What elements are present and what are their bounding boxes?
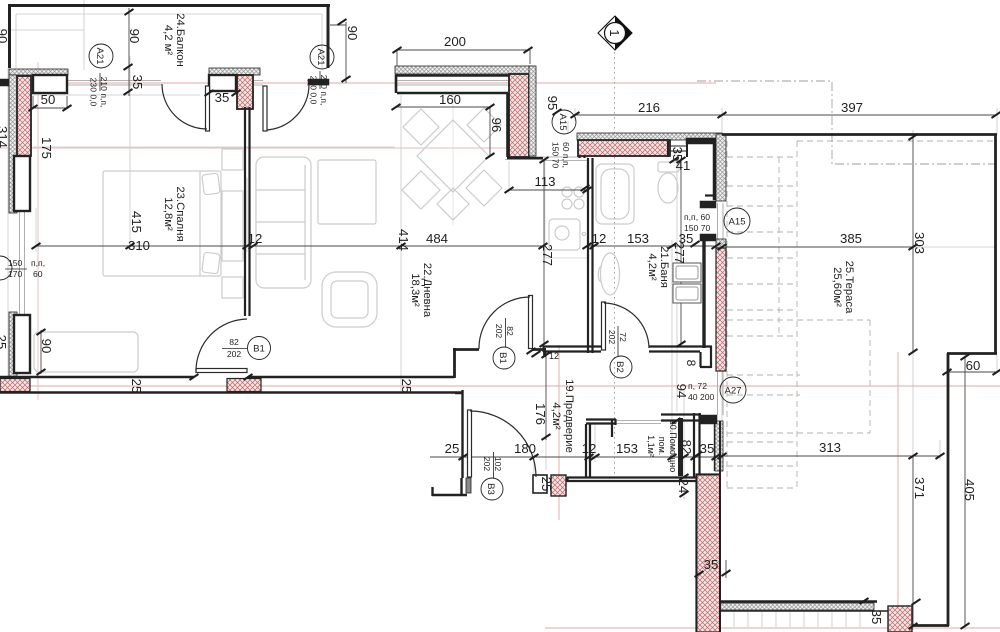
wall: storage left wall <box>586 424 590 477</box>
axis C horizontal y386 <box>0 385 1000 387</box>
dim line 35 vertical x128 and 90 above <box>128 8 130 96</box>
svg-text:405: 405 <box>962 479 977 501</box>
faint horizontal y190 kitchen window dim <box>509 161 587 193</box>
furniture: dining chair SW <box>402 171 440 209</box>
dashed pergola rungs <box>727 157 797 336</box>
furniture: bed pillow top <box>202 173 220 195</box>
furniture: nightstand lower <box>222 277 243 298</box>
LAYER: dashed terrace lines <box>697 81 1000 490</box>
furniture: living table rect <box>318 160 376 224</box>
faint horizontals terrace right <box>722 247 995 460</box>
dim line 277 bath vertical <box>680 158 682 344</box>
axis F vertical x559 <box>558 345 560 520</box>
dashed pergola vertical x797 <box>796 141 798 490</box>
svg-text:В2: В2 <box>614 361 625 373</box>
wall: west red band edges <box>696 421 720 632</box>
wall: terrace west hatch low gray <box>715 421 723 471</box>
north arrow <box>598 16 632 50</box>
svg-text:В1: В1 <box>497 352 508 364</box>
axis E vertical x38 <box>37 62 39 400</box>
faint line left wall outer x8 <box>7 68 9 377</box>
svg-text:82: 82 <box>229 337 239 347</box>
svg-text:35: 35 <box>215 90 230 105</box>
marker circle: A21 right <box>310 45 334 69</box>
svg-text:п,п,: п,п, <box>31 258 45 268</box>
svg-text:12: 12 <box>592 231 607 246</box>
svg-text:277: 277 <box>672 242 687 264</box>
marker circle: window left half <box>0 256 12 280</box>
wall: living bottom step vertical <box>453 348 456 378</box>
wall: terrace west hatch mid red <box>716 248 726 371</box>
marker circle: B3 entry <box>481 478 503 500</box>
wall: storage right wall <box>694 413 700 478</box>
door: living leaf <box>529 296 533 349</box>
door: balcony-living leaf <box>263 86 267 131</box>
faint line bedroom top inner <box>14 95 395 147</box>
svg-text:90: 90 <box>0 29 10 44</box>
furniture: kitchen sink <box>549 219 580 250</box>
axis B horizontal y148 <box>0 147 530 149</box>
wall: entry left wall <box>455 390 463 478</box>
svg-text:303: 303 <box>912 232 927 254</box>
svg-text:В3: В3 <box>485 483 496 495</box>
dashed pergola lower rect <box>727 320 870 433</box>
dim line 160/96 (kitchen corner) <box>396 107 490 156</box>
svg-text:371: 371 <box>912 477 927 499</box>
marker circle: A21 left <box>89 44 113 68</box>
furniture: sofa <box>256 157 311 288</box>
svg-text:113: 113 <box>534 174 555 189</box>
faint extension lines entry y457 <box>462 414 672 482</box>
marker circle: A15 kitchen <box>552 110 576 134</box>
wall: kitchen pillar inner face <box>506 93 509 157</box>
wall: kitchen top hatch band <box>395 66 532 74</box>
wall: left gray hatch strip upper <box>9 75 17 213</box>
svg-text:35: 35 <box>130 75 145 90</box>
wall: terrace west hatch upper <box>716 134 726 201</box>
svg-text:176: 176 <box>533 403 548 425</box>
svg-text:180: 180 <box>514 441 536 456</box>
faint storage opening lines <box>616 421 661 424</box>
svg-text:60: 60 <box>966 358 981 373</box>
svg-text:150: 150 <box>8 258 23 268</box>
wall: entry jamb block <box>466 478 471 493</box>
marker circle: A15 terrace <box>724 208 750 234</box>
dashed pergola vertical x779 <box>778 157 780 337</box>
dashed top edge line <box>797 140 997 142</box>
svg-text:415: 415 <box>129 211 144 233</box>
furniture: dining table diamond <box>417 120 489 192</box>
wall: bath top window jambs <box>668 141 687 157</box>
svg-text:8: 8 <box>684 360 698 367</box>
svg-text:397: 397 <box>841 100 863 115</box>
door: bedroom arc <box>196 319 247 371</box>
wall: entry corner L <box>432 478 467 496</box>
wall: terrace step vertical <box>947 353 950 626</box>
svg-text:А21: А21 <box>94 47 105 64</box>
dim line 303 vertical x918 <box>912 137 914 352</box>
wall: black chunk right of bath window <box>686 138 721 144</box>
svg-text:414: 414 <box>396 229 411 251</box>
svg-text:153: 153 <box>627 231 649 246</box>
axis A horizontal y83 <box>0 82 716 84</box>
faint vertical x684 storage <box>683 388 685 500</box>
svg-text:12: 12 <box>549 351 559 361</box>
wall: terrace top edge <box>722 133 997 136</box>
faint kitchen window lines <box>397 81 508 86</box>
door: balcony-bedroom arc <box>162 84 207 129</box>
wall: living bottom step horizontal <box>453 348 479 351</box>
svg-text:12: 12 <box>582 441 597 456</box>
dashed pergola vertical x727 <box>726 141 728 490</box>
wall: storage inner stub <box>678 418 683 476</box>
wall: terrace bottom right edge <box>913 624 949 627</box>
svg-text:153: 153 <box>616 441 638 456</box>
svg-text:50: 50 <box>41 92 56 107</box>
dim line 35 red band bottom <box>699 560 726 578</box>
svg-text:В1: В1 <box>253 343 265 354</box>
svg-text:25: 25 <box>399 379 414 394</box>
svg-text:94: 94 <box>674 384 689 399</box>
faint stair ticks terrace bottom <box>720 612 913 628</box>
svg-text:25: 25 <box>0 335 9 350</box>
wall: left pier mid <box>14 156 30 211</box>
wall: hatch band balcony middle <box>209 68 260 75</box>
wall: black pier at terrace corner <box>713 141 720 200</box>
faint horizontal bedroom dim extensions <box>36 245 247 247</box>
faint balcony window lines top <box>68 81 329 86</box>
faint balcony inner offset lines <box>16 14 322 68</box>
svg-text:313: 313 <box>819 440 841 455</box>
faint terrace window A15 lines <box>718 203 724 239</box>
svg-text:90: 90 <box>345 26 360 41</box>
svg-text:95: 95 <box>545 96 560 111</box>
wall: stub right of balcony corner <box>308 79 329 85</box>
svg-text:А27: А27 <box>724 385 741 396</box>
axis dotted vertical x614 north line <box>614 52 616 478</box>
marker circle: B1 living <box>493 347 515 369</box>
furniture: bedroom bench <box>34 332 138 372</box>
axis H short y159 kitchen <box>505 159 543 161</box>
wall: kitchen top wall outer <box>395 74 532 77</box>
wall: terrace bottom band lower line <box>719 610 890 612</box>
wall: bedroom bottom wall bottom line <box>0 391 462 394</box>
svg-text:102202: 102202 <box>482 457 503 472</box>
svg-text:277: 277 <box>540 244 555 266</box>
faint vertical table centerline <box>452 95 454 225</box>
wall: kitchen-bath wall pair x578-586 <box>580 133 585 158</box>
wall: bath bottom wall right piece <box>649 347 712 352</box>
wall: kitchen red pillar <box>509 74 529 157</box>
svg-text:90: 90 <box>39 339 54 354</box>
svg-text:25: 25 <box>539 477 554 492</box>
furniture: bathtub <box>596 164 634 224</box>
svg-text:216: 216 <box>638 100 660 115</box>
svg-text:314: 314 <box>0 126 10 148</box>
wall: terrace west hatch mid gray <box>716 239 726 248</box>
wall: balcony top edge <box>8 4 330 7</box>
wall: terrace bottom hatch band <box>720 603 874 610</box>
dim line 90 (right of balcony) <box>330 22 346 83</box>
wall: bath top window lines <box>670 146 687 151</box>
axis G vertical x898 <box>897 352 899 632</box>
wall: bath right window jamb bottom <box>700 234 716 241</box>
faint terrace extension x722 x918 x965 x997 <box>722 108 997 630</box>
wall: top gray hatch band bath-terrace <box>577 133 722 140</box>
wall: terrace bottom red block <box>888 606 912 632</box>
furniture: armchair <box>322 272 377 327</box>
property boundary dash-dot line <box>697 81 1000 164</box>
svg-text:40 200: 40 200 <box>688 392 715 402</box>
wall: terrace step horizontal <box>947 352 997 355</box>
svg-text:202: 202 <box>227 349 242 359</box>
wall: balcony left edge <box>8 4 11 68</box>
svg-text:60 п,п,150 70: 60 п,п,150 70 <box>551 142 572 169</box>
door: bathroom leaf <box>602 302 606 350</box>
door: bathroom arc <box>604 303 649 348</box>
wall: bath left wall <box>588 158 593 353</box>
wall: left gray hatch strip lower <box>9 312 17 377</box>
wall: left pier low <box>14 315 30 373</box>
wall: hatch band top-left <box>9 69 68 75</box>
dim line 313 y456 <box>722 455 940 457</box>
svg-text:35: 35 <box>670 147 685 162</box>
wall: pier balcony middle <box>209 75 236 91</box>
svg-text:160: 160 <box>439 92 461 107</box>
marker circle: B1 bedroom <box>248 337 271 360</box>
svg-text:175: 175 <box>39 137 54 159</box>
svg-text:24: 24 <box>676 479 691 494</box>
wall: bedroom bottom wall top line <box>0 376 454 379</box>
svg-text:А15: А15 <box>557 113 568 130</box>
furniture: bed pillow bottom <box>202 252 220 274</box>
svg-text:90: 90 <box>127 29 142 44</box>
svg-text:60: 60 <box>33 269 43 279</box>
dim line 113 (kitchen pass) <box>509 189 587 191</box>
LAYER: doors <box>162 84 701 477</box>
furniture: dining chair S <box>437 188 469 220</box>
door: balcony-bedroom leaf <box>206 86 210 131</box>
wall: west red band <box>696 474 720 632</box>
furniture: dining chair NE <box>467 108 501 142</box>
wall: left red hatch block <box>17 76 31 156</box>
wall: red pillar balcony <box>237 75 253 109</box>
wall: kitchen pillar bottom cap <box>507 157 543 160</box>
door: entry leaf <box>468 410 472 477</box>
svg-text:25.Тераса25,60м²: 25.Тераса25,60м² <box>831 261 855 314</box>
svg-text:1: 1 <box>607 29 622 36</box>
marker circle: B2 bath <box>610 356 632 378</box>
svg-text:А21: А21 <box>315 48 326 65</box>
dim line 50 (top-left box) <box>24 96 68 108</box>
faint verticals bathroom x672 x677 <box>672 155 677 462</box>
axis D horizontal y628 <box>545 627 1000 629</box>
door: bedroom leaf <box>196 369 247 373</box>
wall: bathroom top red band <box>578 140 670 156</box>
LAYER: furniture <box>34 108 679 372</box>
svg-text:25: 25 <box>129 379 144 394</box>
dim line 405 vertical <box>964 357 966 626</box>
furniture: toilet <box>658 162 679 172</box>
door: living arc <box>479 297 530 349</box>
wall: bath right upper L <box>705 194 721 196</box>
svg-text:200: 200 <box>444 34 466 49</box>
wall: living door jamb right piece <box>532 348 546 357</box>
furniture: kitchen hob circles <box>562 187 572 197</box>
wall: balcony right edge <box>327 4 330 68</box>
dim line 200 (top kitchen) <box>397 50 530 73</box>
dashed bottom rect rungs <box>727 442 797 488</box>
dim line 60 terrace step <box>947 371 997 373</box>
wall: bath right window jamb top <box>700 201 716 208</box>
wall: red block in bottom wall left <box>0 379 30 392</box>
svg-text:385: 385 <box>840 231 862 246</box>
furniture: dining chair SE <box>466 170 502 206</box>
wall: storage top wall left <box>586 419 616 437</box>
door: balcony-living arc <box>267 84 309 130</box>
svg-text:А15: А15 <box>728 216 745 227</box>
faint lines window sills left <box>14 211 30 315</box>
wall: kitchen top wall inner <box>396 75 508 93</box>
dim line 371 vertical <box>912 456 914 626</box>
wall: entry threshold red <box>551 475 566 496</box>
faint horizontal y115 top dims <box>568 108 575 133</box>
svg-text:35: 35 <box>704 557 719 572</box>
wall: terrace right edge <box>994 134 997 354</box>
wall: storage bottom wall <box>567 477 716 482</box>
svg-text:25: 25 <box>445 441 460 456</box>
dim line main horizontal y246 <box>36 246 913 247</box>
svg-text:п, 72: п, 72 <box>688 381 707 391</box>
wall: bath right wall <box>702 241 705 348</box>
appliance: washer box 2 <box>673 284 701 303</box>
svg-text:150 70: 150 70 <box>684 223 711 233</box>
faint vertical extension x36 bedroom <box>35 208 37 252</box>
faint vertical extension x247 partition <box>246 178 248 252</box>
svg-text:484: 484 <box>426 231 448 246</box>
faint verticals near hallway x546 x589 <box>546 352 595 470</box>
wall: stub left edge <box>0 79 9 86</box>
svg-text:12: 12 <box>248 231 263 246</box>
wall: storage top-right wall piece <box>661 415 701 421</box>
faint kitchen counter edge <box>545 160 587 258</box>
wall: entry threshold box <box>533 475 547 493</box>
appliance: washer box 1 <box>673 263 701 282</box>
furniture: dining chair NW <box>403 109 439 145</box>
svg-text:35: 35 <box>869 610 884 625</box>
wall: bath bottom step to terrace <box>700 346 711 368</box>
svg-text:82: 82 <box>679 440 694 455</box>
furniture: washbasin <box>601 253 620 295</box>
wall: terrace bottom band top line <box>719 600 877 602</box>
door: entry arc <box>470 411 536 477</box>
furniture: nightstand upper <box>222 149 243 170</box>
dim line 176 hallway vertical <box>545 352 547 440</box>
wall: partition bedroom-living <box>245 107 250 316</box>
marker circle: A27 terrace <box>720 377 746 403</box>
dim line entry y457 <box>430 456 722 458</box>
dim line 216/397 (top) <box>575 114 997 116</box>
faint 113 window lines <box>543 157 588 161</box>
furniture: bed <box>103 171 221 276</box>
svg-text:310: 310 <box>128 238 150 253</box>
faint vertical extension x130 (35-dim) <box>129 56 131 250</box>
dashed short lines at A27 <box>727 375 800 395</box>
svg-text:п,п, 60: п,п, 60 <box>684 212 710 222</box>
faint vertical extension x401 (414-dim) <box>400 95 402 392</box>
dim line bench 90 <box>40 330 42 374</box>
wall: kitchen pillar gray hatch outer <box>529 66 536 156</box>
dim line 277 kitchen vertical <box>543 160 545 344</box>
wall: pier top-left <box>33 75 67 93</box>
wall: bath bottom wall left piece <box>543 346 601 352</box>
svg-text:210 п,п,230 0,0: 210 п,п,230 0,0 <box>309 75 330 106</box>
fraction dividers A21 annotations <box>99 73 101 91</box>
furniture: dresser by partition <box>222 191 243 261</box>
faint terrace window A27 lines <box>718 371 724 415</box>
svg-text:35: 35 <box>700 441 715 456</box>
svg-text:210 п,п,230 0,0: 210 п,п,230 0,0 <box>89 77 110 108</box>
svg-text:96: 96 <box>489 118 504 133</box>
wall: red block in bottom wall mid <box>227 379 261 392</box>
